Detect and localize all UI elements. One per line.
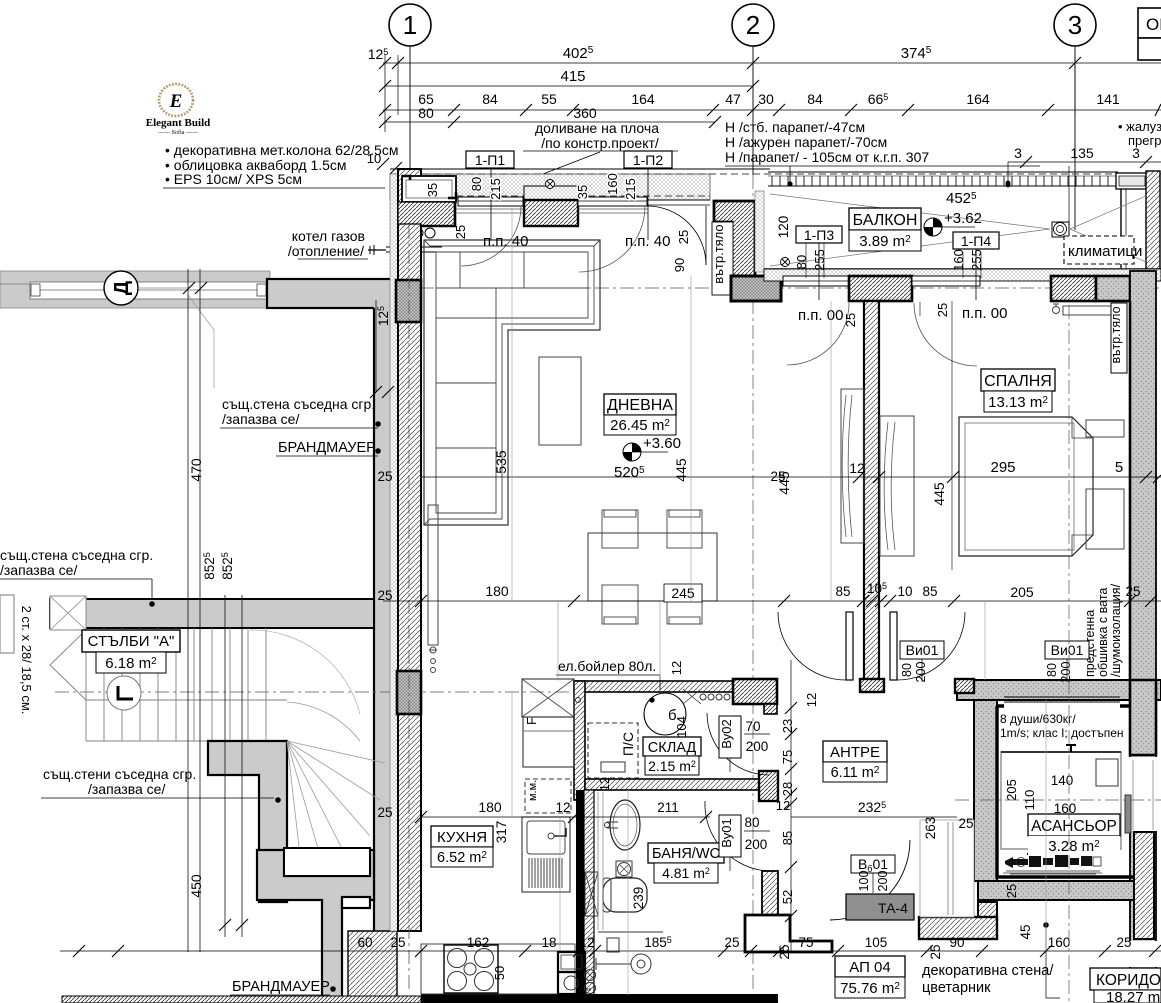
svg-text:35: 35: [575, 185, 590, 199]
svg-text:18.27 m2: 18.27 m2: [1106, 989, 1161, 1003]
dining table: [588, 533, 717, 601]
elevator machine: [1005, 853, 1093, 868]
toilet: [603, 878, 647, 912]
storage south wall: [585, 779, 761, 790]
leader line fancoil: [1068, 166, 1070, 222]
svg-text:47: 47: [725, 91, 741, 107]
label вътр.тяло vertical: [712, 222, 733, 295]
elevation mark +3.62: [924, 218, 942, 236]
svg-text:ел.бойлер 80л.: ел.бойлер 80л.: [558, 658, 656, 674]
svg-text:25: 25: [377, 469, 392, 484]
room label КУХНЯ: [431, 826, 493, 847]
svg-text:255: 255: [969, 249, 984, 271]
svg-text:85: 85: [922, 584, 937, 599]
antre vertical dim chain x=791: [790, 660, 792, 951]
svg-text:26.45 m2: 26.45 m2: [610, 417, 670, 434]
wall bottom cap: [860, 679, 884, 692]
window tag 1-П1: [466, 151, 514, 168]
svg-text:12: 12: [776, 798, 790, 813]
svg-text:вътр.тяло: вътр.тяло: [711, 224, 726, 283]
svg-text:255: 255: [812, 249, 827, 271]
svg-text:Elegant Build: Elegant Build: [146, 117, 211, 129]
bath mid lines: [659, 601, 661, 680]
door tag Ви01 right: [1045, 641, 1089, 659]
kitchen dims: [421, 816, 710, 818]
door jamb left Ви01: [846, 612, 853, 680]
extension lines top dims: [385, 55, 1075, 132]
svg-text:25: 25: [928, 944, 943, 959]
bath door Ву01 swing: [705, 801, 769, 871]
label АП 04: [835, 956, 905, 977]
svg-text:вк: вк: [586, 987, 592, 993]
boiler pier: [733, 679, 777, 704]
klimatici dashed box: [1064, 236, 1134, 264]
balcony door opening: [647, 199, 710, 201]
svg-text:535: 535: [493, 450, 509, 474]
glass partition right: [1116, 173, 1148, 189]
elevator car: [1001, 752, 1121, 849]
svg-text:25: 25: [843, 313, 858, 327]
svg-text:84: 84: [807, 91, 823, 107]
svg-text:25: 25: [1004, 884, 1019, 898]
antre/elevator north wall band: [957, 680, 1161, 700]
svg-text:2: 2: [746, 10, 760, 40]
svg-text:445: 445: [673, 458, 689, 482]
svg-text:ДНЕВНА: ДНЕВНА: [607, 397, 673, 414]
svg-text:цветарник: цветарник: [922, 980, 991, 996]
svg-text:3.28 m2: 3.28 m2: [1048, 838, 1100, 855]
stairs top wall band: [50, 599, 374, 628]
pier between P3 P4: [849, 276, 912, 301]
svg-text:КУХНЯ: КУХНЯ: [437, 829, 487, 846]
svg-text:200: 200: [914, 662, 928, 683]
svg-text:същ.стена съседна сгр.: същ.стена съседна сгр.: [0, 547, 153, 563]
svg-text:84: 84: [482, 91, 498, 107]
svg-text:/запазва се/: /запазва се/: [88, 781, 165, 797]
svg-text:215: 215: [623, 178, 638, 200]
living room vertical helper lines: [511, 206, 513, 601]
svg-text:Ви01: Ви01: [906, 642, 939, 658]
wire grid axis Д horizontal dash-dot: [20, 287, 1161, 289]
corridor opening lines right: [1133, 760, 1153, 830]
room label БАНЯ/WC: [648, 843, 724, 863]
top-left corner column white box: [402, 176, 456, 202]
svg-text:1m/s; клас I; достъпен: 1m/s; клас I; достъпен: [1000, 726, 1124, 740]
svg-text:6.18 m2: 6.18 m2: [105, 655, 157, 672]
grid line 1: [409, 46, 411, 170]
svg-text:СТЪЛБИ "А": СТЪЛБИ "А": [88, 633, 175, 650]
svg-text:СКЛАД: СКЛАД: [648, 740, 697, 756]
svg-text:10: 10: [367, 151, 381, 166]
neighbor corner wall thick: [267, 279, 397, 308]
svg-text:п.п. 40: п.п. 40: [483, 233, 528, 250]
svg-text:10: 10: [897, 584, 912, 599]
svg-text:п.п. 40: п.п. 40: [625, 233, 670, 250]
svg-text:25: 25: [958, 816, 973, 831]
dash-dot axis through stairs: [55, 691, 780, 693]
entry door leaf ТА-4 zone: [846, 894, 914, 920]
node grid circle 1: [389, 4, 431, 46]
L pier living/balcony: [714, 201, 755, 276]
storage west wall: [574, 681, 585, 800]
wall slot window: [342, 897, 370, 908]
gas meter symbols: [585, 970, 596, 981]
guide rail: [1125, 795, 1131, 833]
svg-text:25: 25: [1125, 584, 1140, 599]
kitchen tall units: [522, 679, 574, 717]
node Д grid circle: [104, 271, 138, 305]
node grid circle 2: [732, 4, 774, 46]
corner piers bedroom NE: [1051, 276, 1096, 301]
nightstand top: [1086, 420, 1124, 437]
kitchen sink unit: [522, 817, 570, 892]
svg-text:245: 245: [671, 585, 695, 601]
svg-text:п.п. 00: п.п. 00: [798, 307, 843, 324]
svg-text:80: 80: [1045, 663, 1059, 677]
svg-text:12: 12: [555, 800, 570, 815]
svg-text:—— Sofia ——: —— Sofia ——: [157, 129, 199, 136]
door jamb right Ви01: [890, 612, 897, 680]
svg-text:80: 80: [418, 105, 434, 121]
svg-text:120: 120: [776, 216, 791, 239]
svg-text:160: 160: [1048, 935, 1071, 950]
window 1-P4: [912, 276, 980, 286]
svg-text:60: 60: [357, 935, 372, 950]
window 1-P4 casement swing: [914, 303, 977, 366]
svg-text:164: 164: [966, 91, 990, 107]
svg-text:180: 180: [478, 799, 502, 815]
storage door Ву02 swing: [707, 713, 769, 775]
svg-text:25: 25: [724, 935, 739, 950]
svg-text:12: 12: [669, 661, 684, 675]
svg-text:+3.60: +3.60: [643, 435, 681, 452]
kitchen counter bottom: [421, 944, 575, 994]
svg-text:100: 100: [857, 871, 871, 892]
window 1-P1: [458, 197, 523, 206]
svg-text:25: 25: [935, 303, 950, 317]
svg-text:160: 160: [605, 173, 620, 195]
bottom wall strip: [421, 994, 778, 1003]
svg-text:климатици: климатици: [1068, 243, 1142, 260]
door tag Ву01: [719, 815, 741, 857]
window 1-P3: [783, 276, 849, 286]
entry door Вб01 swing: [830, 840, 910, 920]
svg-text:котел газов: котел газов: [292, 228, 365, 244]
svg-text:3: 3: [1068, 10, 1082, 40]
svg-text:+3.62: +3.62: [944, 210, 982, 227]
door tag Вб01: [851, 855, 895, 873]
svg-text:18: 18: [541, 935, 556, 950]
svg-text:1-П2: 1-П2: [633, 152, 664, 168]
window 1-P2: [578, 197, 647, 206]
drain symbol in facade band: [546, 180, 555, 189]
svg-text:25: 25: [777, 944, 792, 959]
corridor opening in east wall: [1129, 757, 1157, 831]
svg-text:445: 445: [931, 482, 947, 506]
boiler circle: [644, 693, 686, 735]
door swing right Ви01: [897, 612, 965, 680]
dimension row 402.5 / 374.5: [383, 63, 1161, 122]
bedroom wardrobe left of wall: [841, 389, 864, 543]
вътр.тяло label bedroom: [1111, 303, 1127, 373]
svg-text:вътр.тяло: вътр.тяло: [1109, 306, 1123, 363]
storage north wall: [574, 681, 734, 692]
svg-text:200: 200: [876, 871, 890, 892]
winder steps fan: [250, 630, 385, 900]
coffee table: [539, 357, 581, 445]
entry niche lines: [920, 820, 974, 917]
bath east wall lower stub: [762, 871, 778, 920]
room label БАЛКОН: [849, 208, 921, 230]
svg-text:АНТРЕ: АНТРЕ: [830, 744, 880, 761]
leader from Д: [138, 287, 188, 289]
svg-text:205: 205: [1010, 584, 1034, 600]
svg-text:90: 90: [672, 258, 687, 272]
svg-text:200: 200: [1059, 662, 1073, 683]
legend box top right: [1138, 8, 1161, 38]
svg-text:239: 239: [631, 887, 646, 910]
svg-text:м.м.: м.м.: [527, 780, 539, 801]
node grid circle 3: [1054, 4, 1096, 46]
niche X tall: [585, 872, 598, 916]
svg-text:12: 12: [579, 935, 594, 950]
existing wall label box left (small door): [0, 595, 14, 653]
svg-text:СПАЛНЯ: СПАЛНЯ: [984, 373, 1052, 390]
svg-text:205: 205: [1004, 779, 1019, 801]
svg-text:Ву01: Ву01: [719, 818, 734, 848]
svg-text:30: 30: [758, 91, 774, 107]
door tag Ву02: [719, 716, 741, 758]
left vertical dims 470/852/450: [187, 269, 189, 952]
svg-text:6.52 m2: 6.52 m2: [437, 850, 487, 866]
column X box at band end: [50, 596, 86, 630]
balcony interior diagonals: [770, 194, 1146, 266]
svg-text:БАНЯ/WC: БАНЯ/WC: [652, 846, 720, 862]
facade column right: [1146, 171, 1160, 271]
svg-text:същ.стени съседна сгр.: същ.стени съседна сгр.: [43, 766, 196, 782]
west wall center dashdot: [408, 200, 410, 990]
svg-text:215: 215: [488, 178, 503, 200]
kitchen м.м. dashed: [525, 779, 571, 813]
bedroom mid dimension line y=477: [420, 476, 1161, 478]
svg-text:12: 12: [804, 693, 819, 707]
svg-text:/по констр.проект/: /по констр.проект/: [541, 135, 659, 151]
bottom hatched wall region: [348, 931, 397, 1003]
svg-text:F: F: [524, 717, 539, 725]
svg-text:25: 25: [676, 230, 691, 244]
room label АСАНСЬОР: [1028, 814, 1120, 836]
svg-text:75: 75: [780, 750, 795, 764]
lower stair gray walls: [257, 850, 374, 1003]
storage door circles: [576, 698, 581, 703]
towel line: [651, 852, 653, 862]
window tag 1-П3: [796, 226, 842, 243]
bedroom wardrobe right of wall: [880, 416, 914, 556]
oven boxes right: [558, 952, 585, 972]
stair direction circle symbol: [107, 676, 141, 710]
svg-text:АСАНСЬОР: АСАНСЬОР: [1031, 818, 1117, 835]
svg-text:1: 1: [403, 10, 417, 40]
svg-text:12: 12: [598, 777, 612, 791]
svg-text:105: 105: [865, 935, 888, 950]
facade band north wall: [390, 174, 710, 200]
bedroom closet dim lines: [951, 301, 953, 570]
washing machine П/С dashed: [588, 723, 638, 778]
svg-text:75: 75: [798, 935, 813, 950]
west wall masonry: [398, 169, 421, 931]
elevator axes: [1068, 305, 1070, 1003]
svg-text:80: 80: [744, 815, 759, 830]
counterweight: [1096, 759, 1118, 786]
decorative wall band (цветарник): [919, 917, 997, 939]
svg-text:Ву02: Ву02: [719, 719, 734, 749]
fancoil unit on balcony: [1052, 222, 1069, 237]
bath sink: [610, 800, 640, 850]
svg-text:БАЛКОН: БАЛКОН: [853, 212, 918, 229]
grid line 2: [752, 46, 754, 175]
svg-text:/запазва се/: /запазва се/: [0, 562, 77, 578]
white stair opening: [284, 848, 370, 876]
logo Elegant Build: [146, 84, 211, 136]
svg-text:70: 70: [745, 719, 760, 734]
radiator living west: [428, 505, 438, 645]
svg-text:декоративна стена/: декоративна стена/: [922, 963, 1054, 979]
svg-text:25: 25: [390, 935, 405, 950]
svg-text:50: 50: [492, 966, 507, 980]
svg-text:13.13 m2: 13.13 m2: [988, 394, 1048, 411]
svg-text:45: 45: [1018, 924, 1033, 939]
svg-text:6.11 m2: 6.11 m2: [831, 765, 880, 781]
svg-text:85: 85: [780, 831, 795, 845]
room label СПАЛНЯ: [981, 369, 1055, 391]
svg-text:160: 160: [951, 249, 966, 271]
svg-text:БРАНДМАУЕР: БРАНДМАУЕР: [278, 440, 376, 456]
svg-text:104: 104: [674, 716, 689, 738]
svg-text:450: 450: [188, 874, 204, 898]
svg-text:415: 415: [560, 68, 585, 85]
window tag 1-П4: [953, 232, 999, 249]
window 1-P1 casement swing: [461, 206, 521, 266]
svg-text:E: E: [169, 91, 183, 112]
svg-text:180: 180: [485, 583, 509, 599]
svg-text:25: 25: [770, 469, 785, 484]
svg-text:КОРИДОР: КОРИДОР: [1096, 972, 1161, 989]
shower head symbol: [631, 954, 651, 974]
svg-text:75.76 m2: 75.76 m2: [840, 980, 900, 997]
sofa L-shaped: [424, 240, 600, 525]
tick marks row3: [379, 104, 1161, 128]
label стълби: [82, 630, 180, 652]
stair treads upper flight: [50, 628, 287, 741]
pier between windows (1-P2 block): [524, 186, 578, 200]
svg-text:52: 52: [780, 890, 795, 904]
svg-text:/шумоизолация/: /шумоизолация/: [1109, 583, 1123, 677]
svg-text:200: 200: [745, 837, 768, 852]
room label СКЛАД: [643, 737, 701, 756]
window 1-P2 casement swing: [579, 206, 645, 272]
svg-text:3.89 m2: 3.89 m2: [859, 233, 911, 250]
window tag 1-П2: [624, 151, 672, 168]
svg-text:/запазва се/: /запазва се/: [222, 411, 299, 427]
main mid dimension line y=601: [383, 600, 1161, 602]
svg-text:Ви01: Ви01: [1051, 642, 1084, 658]
svg-text:200: 200: [746, 739, 769, 754]
corridor pier left: [978, 902, 997, 939]
pier below (dark) living/balcony south: [731, 276, 781, 301]
svg-text:4.81 m2: 4.81 m2: [662, 865, 710, 881]
svg-text:Н /парапет/ - 105см от к.г.п.: Н /парапет/ - 105см от к.г.п. 307: [725, 149, 929, 165]
bath inner lines: [598, 792, 603, 930]
door swing left Ви01: [778, 612, 846, 680]
room label ДНЕВНА: [604, 394, 676, 415]
bedroom north wall band under balcony: [764, 268, 1161, 270]
svg-text:211: 211: [657, 800, 679, 815]
svg-text:80: 80: [900, 663, 914, 677]
svg-text:2 ст. х 28/ 18,5 см.: 2 ст. х 28/ 18,5 см.: [19, 606, 34, 715]
svg-text:Н /стб. парапет/-47см: Н /стб. парапет/-47см: [725, 119, 865, 135]
dresser right: [1086, 489, 1124, 549]
tick marks row1: [379, 57, 1081, 92]
svg-text:п.п. 00: п.п. 00: [962, 305, 1007, 322]
svg-text:П/С: П/С: [620, 732, 636, 756]
neighbor gray band top-left: [0, 271, 270, 308]
svg-text:25: 25: [453, 225, 468, 239]
window sills inside living room: [456, 209, 648, 213]
corridor pier right: [1134, 832, 1154, 939]
svg-text:същ.стена съседна сгр.: същ.стена съседна сгр.: [222, 396, 375, 412]
svg-text:1-П4: 1-П4: [961, 233, 992, 249]
svg-text:23: 23: [780, 719, 795, 733]
svg-text:263: 263: [923, 817, 938, 840]
shaft right corner: [1130, 680, 1156, 755]
svg-text:Н /ажурен парапет/-70см: Н /ажурен парапет/-70см: [725, 134, 887, 150]
bath vent fan: [616, 861, 632, 877]
svg-text:БРАНДМАУЕР: БРАНДМАУЕР: [232, 979, 330, 995]
svg-text:25: 25: [377, 588, 392, 603]
svg-text:28: 28: [780, 782, 795, 796]
svg-text:80: 80: [794, 255, 809, 269]
balcony railing top: [768, 172, 1148, 268]
chair 1: [602, 510, 702, 624]
svg-text:55: 55: [541, 91, 557, 107]
stairs L wall lower: [208, 741, 287, 902]
svg-text:3: 3: [1014, 145, 1022, 161]
grid line 3: [1074, 46, 1076, 230]
elevator shaft west wall: [974, 700, 997, 881]
svg-text:317: 317: [494, 821, 509, 844]
balcony drain: [781, 258, 790, 267]
svg-text:141: 141: [1096, 91, 1120, 107]
shaft bottom gray band: [978, 881, 1154, 900]
svg-text:164: 164: [631, 91, 655, 107]
EPS strip right of pier: [755, 191, 764, 272]
svg-text:1-П1: 1-П1: [475, 152, 506, 168]
wall living/bedroom vertical: [864, 301, 879, 680]
bottom firewall hatched band: [62, 996, 421, 1003]
window 1-P3 casement swing: [787, 303, 849, 365]
svg-text:160: 160: [1054, 801, 1077, 816]
svg-text:ТА-4: ТА-4: [878, 900, 908, 916]
svg-text:295: 295: [990, 459, 1015, 476]
neighbor window in band: [30, 282, 268, 299]
svg-text:135: 135: [1070, 145, 1094, 161]
elevation mark +3.60: [623, 443, 641, 461]
svg-text:470: 470: [188, 458, 204, 482]
neighbor firewall vertical strip: [374, 306, 397, 931]
radiator bedroom top: [1063, 306, 1111, 315]
svg-text:3: 3: [1132, 145, 1140, 161]
svg-text:85: 85: [835, 584, 850, 599]
